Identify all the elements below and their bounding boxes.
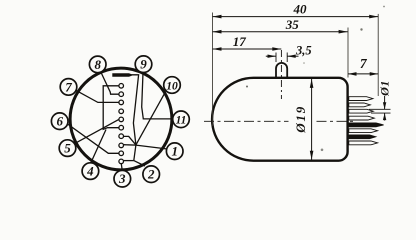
pin 7 circle xyxy=(60,79,77,96)
contact c7 xyxy=(119,134,124,139)
contact c1 xyxy=(119,84,124,89)
svg-text:Ø19: Ø19 xyxy=(293,105,308,134)
svg-text:35: 35 xyxy=(285,17,300,32)
nub axis centerline xyxy=(280,50,282,99)
wire pin10 to junction xyxy=(136,92,166,145)
contact c8 xyxy=(119,143,124,148)
getter lead wire xyxy=(132,75,139,145)
extension line body right xyxy=(347,28,349,78)
tube body outline xyxy=(212,78,348,161)
svg-text:3,5: 3,5 xyxy=(295,43,312,57)
svg-text:8: 8 xyxy=(94,57,101,72)
pin row 5 (solid) xyxy=(349,123,384,127)
getter bar xyxy=(112,73,133,77)
pin 1 circle xyxy=(166,143,183,160)
svg-text:6: 6 xyxy=(56,114,63,129)
pin 8 circle xyxy=(89,56,106,73)
wire bus c1-c6 xyxy=(103,86,118,130)
dim 35 xyxy=(213,17,348,34)
speckles xyxy=(246,86,248,88)
svg-text:11: 11 xyxy=(176,115,187,127)
wire c7 stub to junction xyxy=(124,136,136,145)
contact c10 xyxy=(119,159,124,164)
pin row 4 xyxy=(349,116,375,120)
svg-text:3: 3 xyxy=(118,171,126,186)
pin 2 circle xyxy=(143,166,160,183)
wire pin5 to c5 xyxy=(75,120,119,144)
svg-text:7: 7 xyxy=(65,79,72,94)
dim 7 xyxy=(348,56,378,76)
pin row 7 (solid) xyxy=(349,135,376,139)
svg-text:40: 40 xyxy=(293,2,308,17)
extension nub left xyxy=(275,53,277,63)
pin 5 circle xyxy=(59,140,76,157)
pin row 8 xyxy=(349,141,378,145)
dim 40 xyxy=(213,2,379,19)
dim D19 xyxy=(293,79,314,160)
svg-text:9: 9 xyxy=(140,57,147,72)
pin row 2 xyxy=(349,103,371,107)
extension line pin tips xyxy=(377,14,379,96)
horizontal centerline xyxy=(204,120,289,122)
pin 6 circle xyxy=(51,113,68,130)
pin row 3 xyxy=(349,109,374,113)
contact c3 xyxy=(119,100,124,105)
svg-text:17: 17 xyxy=(233,34,247,49)
wire pin6 to c9 xyxy=(67,124,118,153)
wire pin7 to c3 xyxy=(76,91,118,103)
pin 9 circle xyxy=(135,56,152,73)
dim 3,5 arrows xyxy=(266,43,312,58)
contact c4 xyxy=(119,109,124,114)
wire c10 stub xyxy=(124,160,134,162)
svg-text:2: 2 xyxy=(147,167,155,182)
wire pin9 to pin11 xyxy=(142,73,173,119)
pin 4 circle xyxy=(82,163,99,180)
svg-text:1: 1 xyxy=(171,144,178,159)
contact c2 xyxy=(119,92,124,97)
svg-text:4: 4 xyxy=(86,164,94,179)
pin row 1 xyxy=(349,97,373,101)
svg-text:5: 5 xyxy=(64,141,71,156)
wire junction drop xyxy=(134,145,136,161)
pin 3 circle xyxy=(114,170,131,187)
pin row 6 xyxy=(349,129,378,133)
extension line left xyxy=(212,13,214,127)
wire pin1 junction c8 xyxy=(124,145,167,149)
pin 11 circle xyxy=(173,111,190,128)
exhaust tip nub xyxy=(276,63,287,78)
wire pin3 to c10 xyxy=(120,164,123,171)
wire pin8 to c2 xyxy=(101,72,119,94)
extension nub right xyxy=(286,53,288,63)
wire pin4 to bus xyxy=(91,130,106,163)
contact c6 xyxy=(119,125,124,130)
contact c9 xyxy=(119,151,124,156)
contact c5 xyxy=(119,117,124,122)
dim D1 xyxy=(369,80,391,120)
envelope circle xyxy=(70,68,172,170)
svg-text:Ø1: Ø1 xyxy=(377,80,391,97)
svg-text:10: 10 xyxy=(166,80,178,92)
wire pin2 to junction xyxy=(134,161,145,166)
pin 10 circle xyxy=(164,77,181,94)
dim 17 xyxy=(213,34,282,51)
